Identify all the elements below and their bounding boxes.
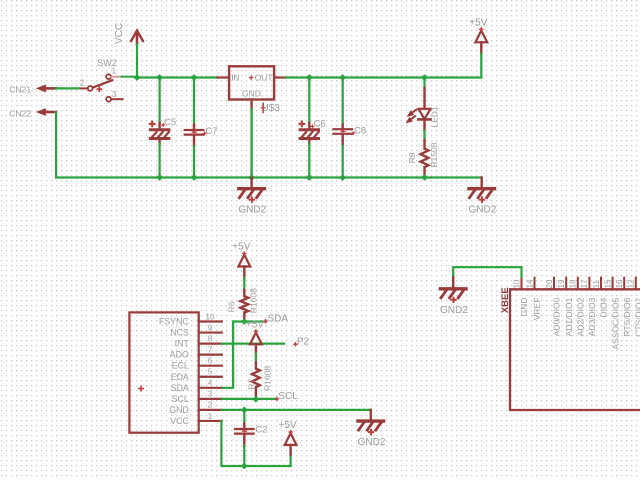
wire C7 to ground rail bbox=[193, 146, 195, 177]
svg-text:XBEE: XBEE bbox=[500, 287, 511, 313]
svg-text:VCC: VCC bbox=[170, 416, 189, 426]
svg-text:3: 3 bbox=[208, 390, 213, 399]
svg-text:R9: R9 bbox=[407, 152, 417, 163]
svg-text:12: 12 bbox=[627, 279, 636, 288]
svg-text:AD3/DIO3: AD3/DIO3 bbox=[587, 297, 597, 336]
MPU pin 7 (ADO) bbox=[170, 345, 222, 359]
svg-text:ADO: ADO bbox=[170, 350, 189, 360]
wire LED1 to R9 bbox=[423, 131, 425, 140]
capacitor C8 bbox=[333, 129, 352, 134]
svg-text:GND2: GND2 bbox=[358, 437, 386, 448]
svg-text:ECL: ECL bbox=[172, 361, 189, 371]
ground GND2 near MPU bbox=[358, 410, 386, 448]
junction C2 / VCC wire bbox=[241, 463, 248, 470]
svg-text:18: 18 bbox=[569, 279, 578, 288]
svg-text:+5V: +5V bbox=[232, 242, 250, 253]
junction U$3 GND / ground rail bbox=[248, 174, 255, 181]
supply +5V pin (R6) bbox=[243, 267, 245, 278]
XBEE pin 14 (VREF) bbox=[525, 278, 542, 321]
ground GND2 below regulator bbox=[238, 178, 266, 216]
wire SW2 pin1 to VCC node bbox=[122, 76, 135, 78]
supply VCC bbox=[114, 23, 143, 45]
wire +5V to R7 bbox=[255, 353, 257, 362]
svg-text:AD1/DIO1: AD1/DIO1 bbox=[564, 297, 574, 336]
wire C6 to ground rail bbox=[308, 144, 310, 178]
svg-text:3: 3 bbox=[112, 90, 117, 99]
svg-text:10: 10 bbox=[512, 279, 521, 288]
MPU pin 1 (VCC) bbox=[170, 412, 222, 426]
capacitor C2 bbox=[235, 429, 254, 434]
svg-text:C6: C6 bbox=[314, 119, 326, 130]
wire to C5 bbox=[159, 78, 161, 123]
supply +5V bottom (MPU VCC) bbox=[279, 420, 297, 445]
svg-text:P2: P2 bbox=[297, 336, 310, 347]
wire GND to C2 bbox=[243, 410, 245, 424]
junction R9 / ground rail bbox=[421, 174, 428, 181]
net label SCL bbox=[275, 398, 279, 400]
svg-text:14: 14 bbox=[525, 279, 534, 288]
ground GND2 XBEE bbox=[440, 278, 468, 316]
capacitor C8 pin bbox=[342, 125, 344, 131]
wire CN22 stub bbox=[55, 111, 57, 113]
wire joint bbox=[135, 76, 137, 78]
XBEE pin 10 (GND) bbox=[512, 278, 529, 317]
wire XBEE pin10 to GND2 bbox=[453, 267, 521, 278]
svg-text:1: 1 bbox=[208, 412, 213, 421]
svg-text:11: 11 bbox=[592, 280, 601, 289]
junction C8 / top rail bbox=[339, 74, 346, 81]
wire MPU VCC pin to +5V bbox=[221, 421, 290, 466]
svg-text:+5V: +5V bbox=[279, 420, 297, 431]
MPU pin 5 (EDA) bbox=[171, 368, 222, 382]
capacitor C2 pin bbox=[243, 423, 245, 430]
capacitor C7 lower pin bbox=[193, 136, 195, 147]
junction SDA node bbox=[241, 318, 248, 325]
XBEE pin 18 (AD2/DIO2) bbox=[569, 278, 586, 337]
svg-text:R1608: R1608 bbox=[249, 288, 259, 313]
junction GND / C2 bbox=[241, 407, 248, 414]
junction C7 / ground rail bbox=[191, 174, 198, 181]
XBEE pin 11 (DIO4) bbox=[592, 278, 609, 318]
junction C6 / top rail bbox=[306, 74, 313, 81]
IC sensor box (MPU) bbox=[129, 312, 198, 432]
capacitor C7 pin bbox=[193, 125, 195, 131]
svg-text:SCL: SCL bbox=[278, 391, 298, 402]
capacitor C6 pin bbox=[308, 123, 310, 130]
wire top rail left bbox=[137, 76, 218, 78]
wire C2 to VCC return bbox=[243, 446, 245, 466]
svg-text:R7: R7 bbox=[246, 378, 256, 389]
svg-text:EDA: EDA bbox=[171, 372, 189, 382]
svg-text:20: 20 bbox=[545, 279, 554, 288]
svg-text:15: 15 bbox=[603, 279, 612, 288]
wire SCL bbox=[222, 398, 277, 400]
svg-text:IN: IN bbox=[231, 73, 240, 83]
resistor R9 bbox=[407, 140, 439, 178]
resistor R7 bbox=[246, 363, 272, 400]
wire top rail right bbox=[286, 76, 481, 78]
svg-text:VCC: VCC bbox=[114, 23, 125, 44]
svg-text:OUT: OUT bbox=[255, 73, 273, 83]
capacitor C6 lower pin bbox=[308, 138, 310, 143]
module XBEE box bbox=[500, 287, 640, 410]
wire INT to label P2 bbox=[222, 343, 284, 345]
svg-text:CN22: CN22 bbox=[9, 108, 31, 118]
wire to C8 bbox=[342, 78, 344, 125]
wire GND net to ground bbox=[222, 409, 371, 411]
svg-text:GND2: GND2 bbox=[469, 205, 497, 216]
svg-text:SCL: SCL bbox=[172, 394, 189, 404]
svg-text:ASSOC/DIO5: ASSOC/DIO5 bbox=[610, 297, 620, 349]
svg-text:4: 4 bbox=[208, 379, 213, 388]
svg-text:FSYNC: FSYNC bbox=[159, 317, 189, 327]
ground GND2 right end bbox=[469, 178, 497, 216]
wire SDA node to MPU pin4 bbox=[222, 322, 245, 388]
capacitor C7 bbox=[185, 130, 204, 135]
svg-text:R1608: R1608 bbox=[263, 366, 273, 391]
supply +5V top right bbox=[469, 17, 487, 42]
wire CN21 to SW2 pin2 bbox=[56, 87, 79, 89]
voltage regulator U$3 (IC3) bbox=[229, 66, 274, 99]
wire to LED1 bbox=[423, 78, 425, 89]
wire U$3 GND to ground rail bbox=[250, 109, 252, 177]
resistor R6 bbox=[227, 288, 259, 322]
svg-text:6: 6 bbox=[208, 357, 213, 366]
svg-text:+5V: +5V bbox=[246, 319, 264, 330]
svg-text:DIO4: DIO4 bbox=[599, 297, 609, 317]
supply +5V above R6 bbox=[232, 242, 250, 267]
MPU pin 4 (SDA) bbox=[171, 379, 222, 393]
supply +5V above R7 bbox=[246, 319, 264, 344]
capacitor C2 lower pin bbox=[243, 435, 245, 446]
svg-text:CN21: CN21 bbox=[9, 84, 31, 94]
wire C5 to ground rail bbox=[159, 144, 161, 178]
capacitor C5 lower pin bbox=[158, 138, 160, 143]
XBEE pin 19 (AD1/DIO1) bbox=[557, 278, 574, 337]
MPU pin 2 (GND) bbox=[169, 401, 222, 415]
XBEE pin 15 (ASSOC/DIO5) bbox=[603, 278, 620, 350]
svg-text:CTS/DIO7: CTS/DIO7 bbox=[634, 297, 640, 336]
capacitor C5 pin bbox=[158, 123, 160, 130]
supply +5V pin (MPU VCC) bbox=[289, 445, 291, 455]
svg-text:C2: C2 bbox=[255, 425, 267, 436]
U$3 pin OUT stub bbox=[274, 76, 286, 78]
MPU pin 6 (ECL) bbox=[172, 357, 222, 371]
svg-text:5: 5 bbox=[208, 368, 213, 377]
wire to C7 bbox=[193, 78, 195, 125]
svg-text:GND2: GND2 bbox=[440, 305, 468, 316]
wire +5V down to top rail bbox=[480, 54, 482, 78]
svg-text:1: 1 bbox=[112, 66, 117, 75]
svg-text:+5V: +5V bbox=[469, 17, 487, 28]
svg-text:NCS: NCS bbox=[170, 328, 189, 338]
net label P2 bbox=[293, 343, 297, 345]
LED LED1 bbox=[407, 88, 440, 131]
svg-text:R6: R6 bbox=[227, 301, 237, 312]
svg-text:16: 16 bbox=[615, 279, 624, 288]
svg-text:C8: C8 bbox=[354, 126, 366, 137]
U$3 pin GND stub bbox=[250, 100, 252, 110]
junction VCC / top rail bbox=[134, 74, 141, 81]
MPU pin 8 (INT) bbox=[175, 334, 222, 348]
svg-text:GND2: GND2 bbox=[238, 205, 266, 216]
svg-text:GND: GND bbox=[519, 298, 529, 317]
XBEE pin 20 (AD0/DIO0) bbox=[545, 278, 562, 337]
supply +5V pin (R7) bbox=[255, 344, 257, 353]
svg-text:GND: GND bbox=[242, 89, 261, 99]
capacitor C8 lower pin bbox=[342, 135, 344, 146]
wire SDA to label bbox=[244, 320, 265, 322]
XBEE pin 17 (AD3/DIO3) bbox=[580, 278, 597, 337]
svg-text:SDA: SDA bbox=[171, 383, 189, 393]
switch SW2 bbox=[79, 58, 123, 102]
svg-text:VREF: VREF bbox=[532, 298, 542, 321]
svg-text:AD2/DIO2: AD2/DIO2 bbox=[576, 297, 586, 336]
capacitor C5 (polarized) bbox=[149, 121, 169, 139]
svg-text:2: 2 bbox=[208, 401, 213, 410]
svg-text:8: 8 bbox=[208, 334, 213, 343]
junction C8 / ground rail bbox=[339, 174, 346, 181]
svg-text:GND: GND bbox=[169, 405, 189, 415]
wire +5V to R6 bbox=[243, 278, 245, 290]
svg-text:RTS/DIO6: RTS/DIO6 bbox=[622, 297, 632, 336]
svg-text:7: 7 bbox=[208, 345, 213, 354]
junction C6 / ground rail bbox=[306, 174, 313, 181]
MPU pin 3 (SCL) bbox=[172, 390, 222, 404]
junction C5 / ground rail bbox=[156, 174, 163, 181]
wire VCC to rail bbox=[136, 45, 138, 78]
junction C5 / top rail bbox=[156, 74, 163, 81]
junction SCL node bbox=[253, 396, 260, 403]
svg-text:2: 2 bbox=[80, 79, 85, 88]
svg-text:19: 19 bbox=[557, 279, 566, 288]
svg-text:R1508: R1508 bbox=[429, 142, 439, 167]
svg-text:AD0/DIO0: AD0/DIO0 bbox=[552, 297, 562, 336]
capacitor C6 (polarized) bbox=[299, 121, 319, 139]
XBEE pin 12 (CTS/DIO7) bbox=[627, 278, 640, 337]
wire CN22 corner to ground rail bbox=[56, 112, 482, 178]
U$3 pin IN stub bbox=[218, 76, 229, 78]
svg-text:C5: C5 bbox=[164, 117, 176, 128]
svg-text:9: 9 bbox=[208, 323, 213, 332]
svg-text:10: 10 bbox=[206, 312, 215, 321]
XBEE pin 16 (RTS/DIO6) bbox=[615, 278, 632, 337]
connector pin CN22 bbox=[37, 109, 56, 115]
MPU pin 9 (NCS) bbox=[170, 323, 222, 337]
supply +5V pin bbox=[480, 42, 482, 53]
wire C8 to ground rail bbox=[342, 145, 344, 177]
wire to C6 bbox=[308, 78, 310, 123]
svg-text:LED1: LED1 bbox=[430, 106, 440, 128]
junction LED1 / top rail bbox=[421, 74, 428, 81]
junction C7 / top rail bbox=[191, 74, 198, 81]
MPU pin 10 (FSYNC) bbox=[159, 312, 222, 326]
connector pin CN21 bbox=[37, 85, 56, 91]
svg-text:SDA: SDA bbox=[268, 314, 289, 325]
svg-text:C7: C7 bbox=[205, 126, 217, 137]
svg-text:17: 17 bbox=[580, 279, 589, 288]
net label SDA bbox=[263, 320, 267, 322]
svg-text:INT: INT bbox=[175, 339, 190, 349]
